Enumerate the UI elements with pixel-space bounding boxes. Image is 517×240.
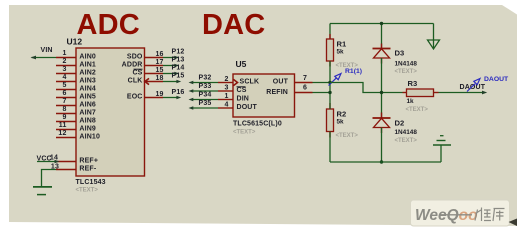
svg-text:AIN2: AIN2: [79, 70, 96, 77]
svg-text:AIN0: AIN0: [79, 54, 96, 61]
svg-text:AIN5: AIN5: [79, 94, 96, 101]
svg-text:AIN6: AIN6: [79, 102, 96, 109]
svg-text:1: 1: [62, 50, 66, 57]
svg-text:P32: P32: [199, 75, 212, 82]
svg-text:AIN7: AIN7: [79, 110, 96, 117]
U5 CS overline: [237, 86, 246, 88]
svg-text:1N4148: 1N4148: [395, 61, 418, 68]
wire P16: [163, 97, 178, 99]
svg-text:D2: D2: [395, 119, 405, 128]
svg-text:AIN4: AIN4: [79, 86, 96, 93]
svg-text:5: 5: [62, 82, 66, 89]
svg-text:D3: D3: [395, 49, 405, 58]
U12 right pin numbers: [156, 51, 164, 98]
svg-text:15: 15: [156, 67, 164, 74]
svg-text:VIN: VIN: [41, 47, 53, 54]
svg-text:P12: P12: [172, 49, 185, 56]
power symbol top right (arrow down): [428, 24, 440, 50]
VIN left arrow: [31, 56, 37, 60]
U12 CS overline: [134, 68, 143, 70]
svg-text:3: 3: [224, 85, 228, 92]
wire R2 to bottom rail: [329, 132, 331, 163]
svg-text:ADC: ADC: [77, 9, 140, 41]
VCC arrow: [55, 160, 60, 164]
svg-text:2: 2: [224, 76, 228, 83]
svg-text:P15: P15: [172, 73, 185, 80]
svg-text:U5: U5: [236, 59, 247, 69]
svg-text:R3: R3: [408, 79, 418, 88]
probe DAOUT blue arrow: [467, 79, 480, 92]
wire P32 to SCLK: [192, 82, 218, 84]
wire to ground right: [440, 146, 442, 163]
svg-text:P35: P35: [199, 100, 212, 107]
svg-text:DOUT: DOUT: [237, 104, 258, 111]
U5 SCLK clock chevron: [233, 79, 237, 85]
svg-text:12: 12: [58, 130, 66, 137]
svg-text:DAOUT: DAOUT: [460, 84, 486, 91]
diode D2: [373, 93, 391, 163]
svg-text:4: 4: [224, 102, 228, 109]
wire P14: [163, 73, 176, 75]
svg-text:4: 4: [62, 74, 66, 81]
svg-text:REFIN: REFIN: [266, 89, 288, 96]
svg-text:R1(1): R1(1): [345, 68, 362, 75]
wire rail to R1: [329, 24, 331, 40]
wire REF- to ground: [42, 170, 57, 187]
svg-text:WeeQoo: WeeQoo: [415, 207, 478, 224]
ground symbol left: [33, 187, 52, 195]
svg-text:DAC: DAC: [202, 9, 265, 41]
svg-text:AIN9: AIN9: [79, 126, 96, 133]
svg-text:AIN1: AIN1: [79, 62, 96, 69]
U12 right pin stubs: [145, 58, 164, 98]
svg-text:P14: P14: [172, 65, 185, 72]
svg-text:18: 18: [156, 75, 164, 82]
IC U5 body: [233, 74, 295, 117]
svg-text:SCLK: SCLK: [240, 79, 260, 86]
junction R3 row D3: [380, 91, 383, 94]
wire OUT jog to R3 row: [330, 83, 403, 93]
junction node OUT: [328, 81, 331, 84]
svg-text:REF-: REF-: [79, 166, 96, 173]
svg-text:2: 2: [62, 58, 66, 65]
svg-text:3: 3: [62, 66, 66, 73]
resistor R2: [327, 103, 334, 138]
wire P34 to DIN: [192, 99, 218, 101]
top rail wire: [330, 23, 434, 25]
svg-text:<TEXT>: <TEXT>: [395, 69, 418, 75]
U5 left pin names: [237, 79, 260, 112]
svg-text:AIN10: AIN10: [79, 134, 100, 141]
svg-text:CS: CS: [132, 70, 142, 77]
wire P13: [163, 65, 176, 67]
svg-text:REF+: REF+: [79, 158, 98, 165]
bottom rail wire: [330, 161, 441, 163]
svg-text:5k: 5k: [337, 119, 345, 126]
svg-text:P13: P13: [172, 57, 185, 64]
svg-text:CS: CS: [237, 87, 247, 94]
U5 left pin numbers: [224, 76, 228, 109]
U12 left pin names: [79, 54, 100, 173]
svg-text:1k: 1k: [407, 98, 415, 105]
svg-text:<TEXT>: <TEXT>: [406, 107, 429, 113]
svg-text:AIN3: AIN3: [79, 78, 96, 85]
junction bottom rail D2: [380, 160, 383, 163]
svg-text:ADDR: ADDR: [122, 62, 143, 69]
svg-text:R1: R1: [337, 39, 347, 48]
wire R3 to DAOUT: [439, 92, 484, 94]
watermark box WeeQoo: [411, 200, 510, 226]
svg-text:P33: P33: [199, 83, 212, 90]
svg-text:DIN: DIN: [237, 96, 250, 103]
U5 right pin numbers: [303, 75, 307, 92]
svg-text:16: 16: [156, 51, 164, 58]
svg-text:9: 9: [62, 114, 66, 121]
IC U12 body: [76, 48, 145, 176]
U5 right pin names: [266, 79, 288, 97]
svg-text:<TEXT>: <TEXT>: [336, 133, 359, 139]
wire VIN to pin1: [32, 57, 57, 59]
U5 OUT pin stub: [295, 82, 313, 84]
svg-text:7: 7: [303, 75, 307, 82]
junction node REFIN: [328, 91, 331, 94]
U12 left pin numbers: [50, 50, 67, 170]
svg-text:P16: P16: [172, 89, 185, 96]
svg-text:8: 8: [62, 106, 66, 113]
DAOUT right arrow: [482, 91, 487, 95]
svg-text:17: 17: [156, 59, 164, 66]
U12 CLK clock chevron: [145, 78, 149, 84]
wire VCC to pin14: [37, 161, 56, 163]
diode D3: [373, 24, 391, 93]
corner arrow bottom-right: [509, 219, 517, 227]
svg-text:<TEXT>: <TEXT>: [395, 138, 418, 144]
svg-text:U12: U12: [67, 37, 83, 47]
svg-text:TLC1543: TLC1543: [76, 179, 106, 186]
svg-text:TLC5615C(L)0: TLC5615C(L)0: [233, 121, 282, 128]
svg-text:OUT: OUT: [273, 79, 289, 86]
U5 REFIN pin stub: [295, 92, 313, 94]
resistor R1: [327, 34, 334, 67]
probe R1(1) blue arrow: [329, 74, 342, 86]
svg-text:19: 19: [156, 91, 164, 98]
svg-text:CLK: CLK: [128, 78, 143, 85]
junction top rail D3: [380, 22, 383, 25]
wire P35 to DOUT: [192, 107, 218, 109]
svg-text:AIN8: AIN8: [79, 118, 96, 125]
svg-text:SDO: SDO: [127, 54, 143, 61]
wire P33 to CS: [192, 90, 218, 92]
wire P12: [163, 57, 176, 59]
svg-text:7: 7: [62, 98, 66, 105]
resistor R3: [403, 89, 439, 97]
wire R1 to node: [329, 61, 331, 93]
svg-text:6: 6: [303, 85, 307, 92]
svg-text:EOC: EOC: [127, 94, 143, 101]
ground symbol right (inverted): [433, 136, 451, 145]
wire OUT to divider node: [313, 82, 331, 84]
U12 left pin stubs 1-12: [56, 58, 76, 170]
wire node to R2: [329, 93, 331, 110]
svg-text:DAOUT: DAOUT: [484, 76, 509, 83]
svg-text:P34: P34: [199, 92, 212, 99]
svg-text:5k: 5k: [337, 49, 345, 56]
svg-text:R2: R2: [337, 110, 347, 119]
svg-text:<TEXT>: <TEXT>: [233, 130, 256, 136]
wire REFIN to divider node: [313, 92, 331, 94]
svg-text:11: 11: [59, 122, 67, 129]
svg-text:<TEXT>: <TEXT>: [76, 188, 99, 194]
svg-text:1: 1: [224, 93, 228, 100]
wire P15: [163, 81, 178, 83]
U12 right pin names: [122, 54, 143, 101]
svg-text:1N4148: 1N4148: [395, 129, 418, 136]
svg-text:6: 6: [62, 90, 66, 97]
